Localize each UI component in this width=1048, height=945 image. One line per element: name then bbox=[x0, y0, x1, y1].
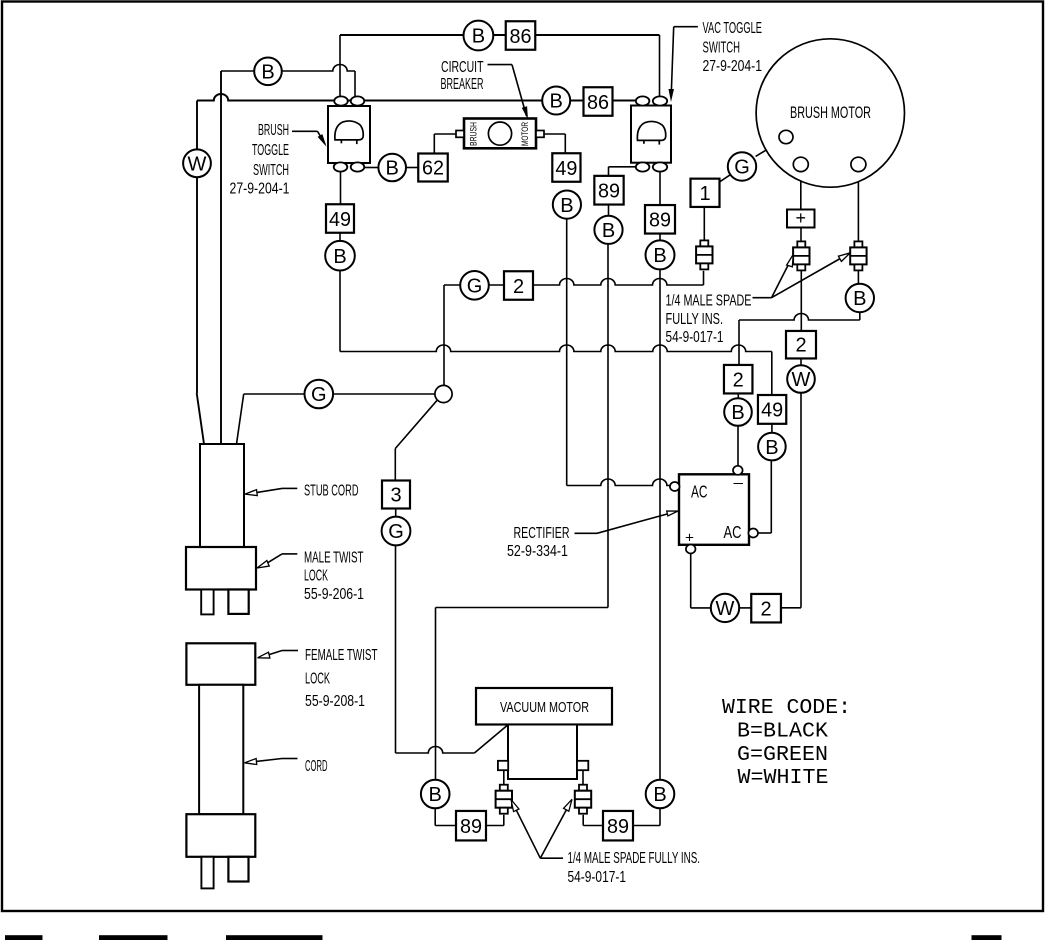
svg-text:89: 89 bbox=[460, 816, 482, 838]
svg-text:+: + bbox=[795, 208, 806, 228]
svg-text:B: B bbox=[602, 220, 615, 242]
svg-text:G: G bbox=[734, 157, 750, 179]
svg-text:B: B bbox=[429, 784, 442, 806]
svg-text:CORD: CORD bbox=[305, 758, 328, 775]
svg-text:54-9-017-1: 54-9-017-1 bbox=[666, 329, 724, 346]
svg-text:B: B bbox=[653, 784, 666, 806]
svg-text:SWITCH: SWITCH bbox=[703, 40, 741, 57]
svg-text:62: 62 bbox=[422, 158, 444, 180]
svg-text:2: 2 bbox=[761, 598, 772, 620]
svg-text:TOGGLE: TOGGLE bbox=[252, 142, 289, 159]
svg-text:B: B bbox=[765, 437, 778, 459]
svg-text:AC: AC bbox=[691, 482, 708, 502]
svg-text:MOTOR: MOTOR bbox=[520, 122, 530, 146]
svg-text:B: B bbox=[853, 288, 866, 310]
svg-text:VACUUM MOTOR: VACUUM MOTOR bbox=[500, 699, 589, 716]
svg-text:LOCK: LOCK bbox=[305, 671, 330, 688]
svg-text:1: 1 bbox=[699, 183, 710, 205]
svg-text:B: B bbox=[386, 158, 399, 180]
svg-text:BREAKER: BREAKER bbox=[441, 76, 484, 93]
svg-text:27-9-204-1: 27-9-204-1 bbox=[703, 58, 763, 75]
svg-text:1/4 MALE SPADE: 1/4 MALE SPADE bbox=[666, 293, 752, 310]
svg-text:49: 49 bbox=[761, 400, 783, 422]
svg-text:B: B bbox=[472, 26, 485, 48]
svg-text:W: W bbox=[716, 598, 735, 620]
svg-text:2: 2 bbox=[733, 369, 744, 391]
svg-text:LOCK: LOCK bbox=[304, 568, 328, 585]
svg-text:49: 49 bbox=[329, 209, 351, 231]
svg-text:52-9-334-1: 52-9-334-1 bbox=[507, 543, 568, 560]
svg-text:G: G bbox=[388, 521, 404, 543]
svg-text:+: + bbox=[685, 530, 694, 547]
svg-text:G: G bbox=[311, 384, 327, 406]
svg-text:MALE TWIST: MALE TWIST bbox=[304, 550, 364, 567]
svg-text:CIRCUIT: CIRCUIT bbox=[441, 59, 484, 76]
svg-text:B: B bbox=[731, 402, 744, 424]
svg-text:W=WHITE: W=WHITE bbox=[738, 766, 829, 790]
svg-text:–: – bbox=[734, 475, 744, 492]
svg-text:55-9-208-1: 55-9-208-1 bbox=[305, 693, 365, 710]
svg-text:2: 2 bbox=[795, 335, 806, 357]
svg-text:AC: AC bbox=[724, 522, 742, 542]
svg-text:89: 89 bbox=[598, 181, 620, 203]
svg-text:B: B bbox=[333, 246, 346, 268]
svg-text:1/4 MALE SPADE FULLY INS.: 1/4 MALE SPADE FULLY INS. bbox=[568, 850, 701, 867]
svg-text:B: B bbox=[653, 245, 666, 267]
svg-text:SWITCH: SWITCH bbox=[253, 162, 289, 179]
svg-text:B=BLACK: B=BLACK bbox=[737, 720, 828, 744]
svg-text:86: 86 bbox=[510, 26, 532, 48]
svg-text:86: 86 bbox=[587, 92, 609, 114]
svg-text:BRUSH: BRUSH bbox=[258, 122, 289, 139]
svg-text:89: 89 bbox=[607, 816, 629, 838]
svg-text:55-9-206-1: 55-9-206-1 bbox=[304, 586, 364, 603]
svg-text:3: 3 bbox=[390, 485, 401, 507]
svg-text:BRUSH: BRUSH bbox=[468, 122, 478, 146]
svg-text:54-9-017-1: 54-9-017-1 bbox=[568, 869, 627, 886]
svg-text:B: B bbox=[261, 62, 274, 84]
svg-text:WIRE CODE:: WIRE CODE: bbox=[722, 696, 851, 720]
svg-text:FEMALE TWIST: FEMALE TWIST bbox=[305, 647, 378, 664]
svg-text:STUB CORD: STUB CORD bbox=[304, 483, 359, 500]
svg-text:G=GREEN: G=GREEN bbox=[737, 743, 828, 767]
svg-text:B: B bbox=[560, 195, 573, 217]
svg-text:W: W bbox=[188, 154, 207, 176]
svg-text:2: 2 bbox=[513, 276, 524, 298]
svg-text:G: G bbox=[467, 276, 483, 298]
svg-text:27-9-204-1: 27-9-204-1 bbox=[230, 181, 290, 198]
svg-text:VAC TOGGLE: VAC TOGGLE bbox=[703, 20, 763, 37]
svg-text:W: W bbox=[792, 369, 811, 391]
svg-text:B: B bbox=[550, 91, 563, 113]
svg-text:BRUSH MOTOR: BRUSH MOTOR bbox=[790, 104, 871, 122]
svg-text:89: 89 bbox=[649, 210, 671, 232]
svg-text:49: 49 bbox=[555, 158, 577, 180]
svg-text:FULLY INS.: FULLY INS. bbox=[666, 311, 724, 328]
svg-text:RECTIFIER: RECTIFIER bbox=[514, 525, 570, 542]
